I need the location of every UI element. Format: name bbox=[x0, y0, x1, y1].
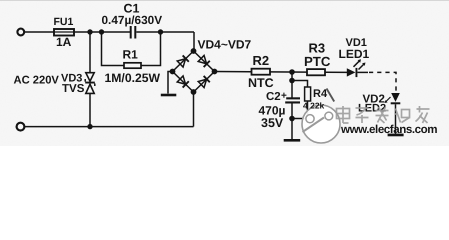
capacitor C1 bbox=[130, 26, 132, 39]
wire: R3 to LED VD1 bbox=[325, 71, 347, 73]
node: bridge right corner bbox=[212, 69, 218, 75]
bridge diode VD5 (top to right) bbox=[198, 55, 210, 67]
bridge rectifier ring VD4~VD7 bbox=[173, 51, 215, 92]
resistor R2 bbox=[252, 69, 271, 75]
watermark CJK text (approximated glyph shapes) bbox=[337, 106, 430, 123]
svg-text:R1: R1 bbox=[123, 48, 139, 62]
terminal T2 (AC input, neutral) bbox=[17, 123, 25, 131]
wire: VD3 branch lower bbox=[89, 94, 91, 127]
node: bridge top corner bbox=[191, 48, 197, 54]
resistor R3 (PTC) bbox=[307, 69, 325, 75]
svg-text:TVS: TVS bbox=[62, 83, 85, 95]
svg-text:AC 220V: AC 220V bbox=[14, 75, 60, 87]
svg-text:+: + bbox=[281, 91, 287, 102]
bridge diode VD6 (left to bottom) bbox=[177, 76, 189, 88]
node J7 (R4 return) bbox=[289, 116, 295, 122]
node J5 (C2 tap) bbox=[289, 69, 295, 75]
terminal T1 (AC input, live) bbox=[17, 29, 24, 36]
wire: R1 parallel branch bbox=[102, 32, 125, 66]
wire: top wire down to bridge bbox=[193, 32, 195, 51]
resistor R1 bbox=[124, 63, 141, 68]
svg-text:4 22k: 4 22k bbox=[303, 101, 325, 111]
paper grain bbox=[0, 0, 449, 146]
faint scan line along top edge bbox=[0, 0, 449, 2]
node: bridge left corner bbox=[170, 69, 176, 75]
svg-text:LED1: LED1 bbox=[339, 47, 370, 61]
wire: dashed link (omitted LED string) bbox=[357, 71, 368, 73]
wire: C2 branch lower bbox=[291, 104, 293, 140]
bridge diode VD7 (bottom to right) bbox=[198, 76, 210, 88]
wire: R4 tap horizontal bbox=[292, 81, 308, 88]
svg-text:FU1: FU1 bbox=[54, 16, 74, 28]
resistor R4 bbox=[305, 87, 311, 101]
ground (bridge negative) bbox=[161, 94, 177, 97]
svg-text:www.elecfans.com: www.elecfans.com bbox=[340, 123, 437, 136]
svg-text:1M/0.25W: 1M/0.25W bbox=[105, 71, 161, 85]
TVS diode VD3 (bidirectional) bbox=[85, 73, 95, 94]
wire: bridge bottom to rail bbox=[193, 92, 195, 127]
ground (VD2) bbox=[388, 134, 404, 137]
wire: R2 to R3 bbox=[270, 71, 307, 73]
capacitor C2 (electrolytic) bbox=[286, 97, 300, 99]
svg-text:R2: R2 bbox=[253, 53, 270, 68]
ground (C2) bbox=[284, 139, 301, 142]
LED VD2 bbox=[385, 93, 401, 104]
svg-text:C2: C2 bbox=[266, 91, 281, 103]
node J2 (R1/C1 left) bbox=[99, 29, 104, 34]
wire: bottom rail bbox=[25, 126, 194, 128]
svg-text:NTC: NTC bbox=[248, 76, 274, 90]
svg-text:1A: 1A bbox=[56, 35, 72, 49]
wire: C1 to corner bbox=[136, 31, 194, 33]
svg-text:PTC: PTC bbox=[304, 54, 331, 69]
svg-text:0.47µ/630V: 0.47µ/630V bbox=[102, 13, 163, 27]
svg-text:35V: 35V bbox=[261, 116, 284, 130]
node J3 (R1/C1 right) bbox=[158, 29, 163, 34]
wire: C2 branch upper bbox=[291, 72, 293, 98]
wire: VD3 branch upper bbox=[89, 32, 91, 73]
svg-text:VD4~VD7: VD4~VD7 bbox=[198, 38, 252, 52]
fuse FU1 bbox=[54, 29, 74, 36]
wire: fuse to C1 bbox=[74, 31, 130, 33]
wire: VD2 to ground bbox=[395, 104, 397, 134]
watermark logo circle bbox=[302, 105, 340, 143]
wire: R4 lower to J7 bbox=[292, 101, 308, 119]
node J1 (VD3 tap) bbox=[87, 29, 92, 34]
svg-text:R4: R4 bbox=[313, 88, 328, 100]
bridge diode VD4 (left to top) bbox=[177, 55, 189, 67]
wire: R1 to node J3 bbox=[141, 32, 161, 66]
wire: bridge positive output to R2 bbox=[215, 71, 252, 73]
wire: bridge negative jog bbox=[168, 72, 173, 94]
node: bridge bottom corner bbox=[191, 89, 197, 95]
watermark logo needle bbox=[327, 89, 335, 102]
node J6 (R4 tap) bbox=[289, 78, 295, 84]
node J4 (VD3 to rail) bbox=[87, 124, 92, 129]
LED VD1 bbox=[347, 59, 366, 77]
wire: terminal T1 to fuse bbox=[24, 31, 54, 33]
